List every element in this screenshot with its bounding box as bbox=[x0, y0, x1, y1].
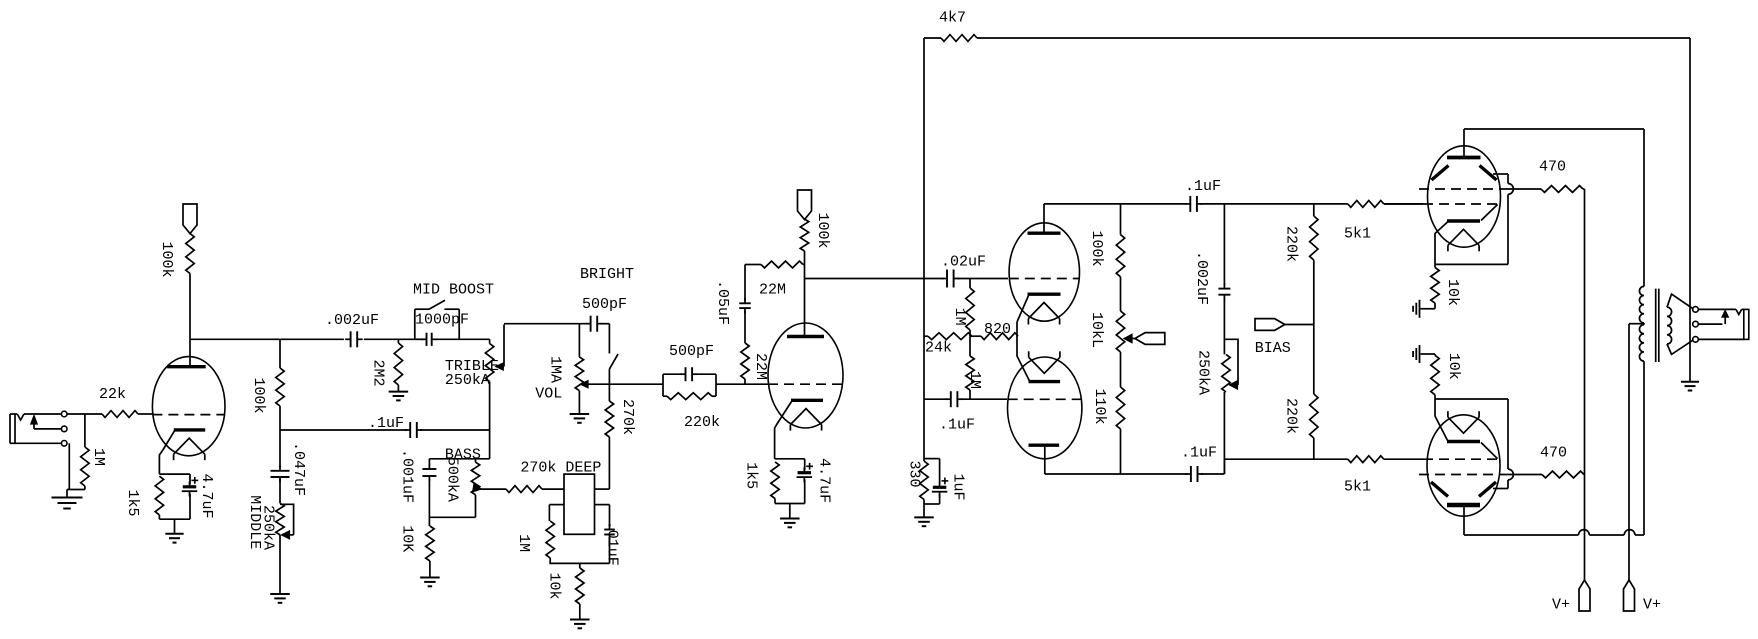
svg-text:.1uF: .1uF bbox=[939, 417, 975, 434]
svg-text:820: 820 bbox=[984, 321, 1011, 338]
svg-text:100k: 100k bbox=[1088, 230, 1105, 266]
svg-text:.1uF: .1uF bbox=[1185, 178, 1221, 195]
svg-text:500pF: 500pF bbox=[582, 296, 627, 313]
svg-text:22M: 22M bbox=[759, 282, 786, 299]
svg-text:1000pF: 1000pF bbox=[415, 312, 469, 329]
svg-text:1k5: 1k5 bbox=[124, 489, 141, 516]
svg-text:BRIGHT: BRIGHT bbox=[580, 266, 634, 283]
svg-text:10kL: 10kL bbox=[1088, 312, 1105, 348]
svg-text:500kA: 500kA bbox=[443, 457, 460, 502]
svg-text:V+: V+ bbox=[1552, 597, 1570, 614]
svg-text:100k: 100k bbox=[158, 241, 175, 277]
svg-text:270k: 270k bbox=[520, 460, 556, 477]
svg-text:10K: 10K bbox=[399, 525, 416, 552]
svg-text:.01uF: .01uF bbox=[603, 521, 620, 566]
svg-text:1M: 1M bbox=[515, 534, 532, 552]
svg-text:.1uF: .1uF bbox=[368, 415, 404, 432]
svg-text:220k: 220k bbox=[1282, 398, 1299, 434]
svg-text:270k: 270k bbox=[619, 399, 636, 435]
svg-text:.02uF: .02uF bbox=[941, 254, 986, 271]
svg-text:1MA: 1MA bbox=[546, 356, 563, 383]
svg-text:470: 470 bbox=[1539, 159, 1566, 176]
svg-text:5k1: 5k1 bbox=[1344, 479, 1371, 496]
svg-text:22k: 22k bbox=[99, 386, 126, 403]
svg-text:.047uF: .047uF bbox=[290, 442, 307, 496]
svg-text:220k: 220k bbox=[684, 414, 720, 431]
svg-text:.1uF: .1uF bbox=[1181, 445, 1217, 462]
svg-text:VOL: VOL bbox=[535, 385, 562, 402]
svg-text:5k1: 5k1 bbox=[1344, 226, 1371, 243]
svg-text:24k: 24k bbox=[925, 340, 952, 357]
svg-text:.001uF: .001uF bbox=[399, 449, 416, 503]
svg-text:.002uF: .002uF bbox=[325, 312, 379, 329]
svg-text:220k: 220k bbox=[1282, 226, 1299, 262]
svg-text:250kA: 250kA bbox=[1195, 350, 1212, 395]
svg-text:330: 330 bbox=[905, 460, 922, 487]
svg-text:.05uF: .05uF bbox=[714, 280, 731, 325]
svg-text:4.7uF: 4.7uF bbox=[816, 458, 833, 503]
svg-text:100k: 100k bbox=[814, 212, 831, 248]
svg-text:MID BOOST: MID BOOST bbox=[413, 282, 494, 299]
svg-text:1k5: 1k5 bbox=[742, 462, 759, 489]
svg-text:4k7: 4k7 bbox=[939, 10, 966, 27]
svg-text:470: 470 bbox=[1540, 445, 1567, 462]
svg-text:100k: 100k bbox=[250, 377, 267, 413]
svg-text:1M: 1M bbox=[966, 371, 983, 389]
svg-text:250kA: 250kA bbox=[260, 505, 277, 550]
svg-text:1M: 1M bbox=[90, 448, 107, 466]
svg-text:4.7uF: 4.7uF bbox=[198, 473, 215, 518]
svg-text:500pF: 500pF bbox=[669, 343, 714, 360]
svg-text:2M2: 2M2 bbox=[370, 359, 387, 386]
svg-text:DEEP: DEEP bbox=[565, 460, 601, 477]
svg-text:10k: 10k bbox=[1445, 353, 1462, 380]
svg-text:10k: 10k bbox=[1444, 279, 1461, 306]
svg-text:250kA: 250kA bbox=[445, 372, 490, 389]
svg-text:V+: V+ bbox=[1643, 597, 1661, 614]
svg-text:10k: 10k bbox=[546, 572, 563, 599]
svg-text:1M: 1M bbox=[951, 308, 968, 326]
svg-text:1uF: 1uF bbox=[949, 473, 966, 500]
svg-text:BIAS: BIAS bbox=[1255, 340, 1291, 357]
svg-text:.002uF: .002uF bbox=[1193, 251, 1210, 305]
svg-text:22M: 22M bbox=[752, 353, 769, 380]
svg-text:110k: 110k bbox=[1091, 388, 1108, 424]
